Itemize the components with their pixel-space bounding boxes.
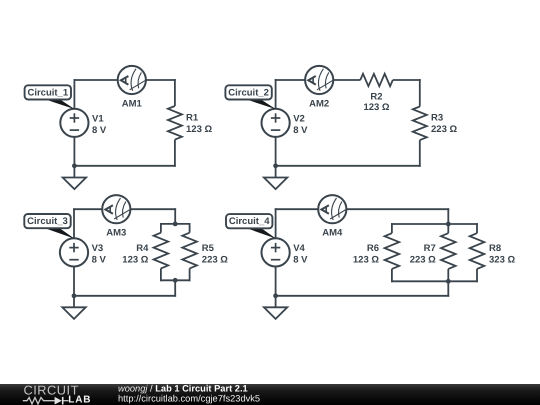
svg-text:8 V: 8 V [92, 125, 107, 136]
wire [73, 166, 75, 178]
wire [393, 79, 421, 81]
ammeter AM4 [318, 195, 346, 223]
wire [73, 137, 75, 166]
svg-text:R8: R8 [489, 243, 501, 254]
ammeter AM3 [102, 195, 130, 223]
wire [174, 140, 176, 167]
wire [160, 223, 191, 225]
svg-text:Circuit_3: Circuit_3 [27, 216, 68, 227]
footer text [118, 383, 260, 403]
resistor R7 [441, 233, 456, 269]
resistor R8 [470, 233, 485, 269]
svg-text:R1: R1 [186, 113, 199, 124]
wire [275, 137, 277, 166]
wire [73, 79, 75, 109]
resistor R4 [154, 233, 169, 269]
svg-text:Circuit_1: Circuit_1 [27, 87, 68, 98]
svg-text:LAB: LAB [68, 394, 91, 405]
node c4-gnd (junction dot) [273, 293, 278, 298]
wire [419, 140, 421, 167]
svg-text:V3: V3 [92, 243, 104, 254]
wire [73, 267, 75, 296]
ammeter AM2 [305, 66, 333, 94]
wire [391, 280, 478, 282]
wire [275, 208, 318, 210]
wire [391, 223, 478, 225]
wire [189, 268, 191, 281]
node c3-top (junction dot) [173, 222, 178, 227]
node c4-bot (junction dot) [446, 279, 451, 284]
wire [391, 269, 393, 282]
voltage source V2 [262, 109, 290, 137]
wire [74, 165, 176, 167]
resistor R2 [360, 74, 393, 86]
node c2-gnd (junction dot) [273, 163, 278, 168]
svg-text:woongj / Lab 1 Circuit Part 2.: woongj / Lab 1 Circuit Part 2.1 [118, 383, 248, 393]
voltage source V4 [262, 238, 290, 266]
resistor R3 [413, 107, 427, 141]
svg-text:AM3: AM3 [106, 228, 126, 239]
wire [447, 281, 449, 296]
wire [447, 223, 449, 233]
wire [347, 208, 450, 210]
ground [63, 178, 86, 190]
flag label Circuit_3 [24, 214, 74, 239]
wire [73, 208, 75, 238]
svg-text:323 Ω: 323 Ω [489, 254, 515, 265]
svg-text:R2: R2 [370, 92, 382, 103]
wire [275, 295, 450, 297]
wire [391, 223, 393, 233]
wire [275, 79, 305, 81]
svg-text:123 Ω: 123 Ω [122, 254, 148, 265]
svg-text:AM2: AM2 [309, 98, 329, 109]
svg-text:123 Ω: 123 Ω [363, 102, 389, 113]
svg-text:V2: V2 [293, 113, 305, 124]
svg-text:123 Ω: 123 Ω [186, 124, 212, 135]
flag label Circuit_1 [25, 85, 75, 109]
wire [160, 223, 162, 233]
svg-text:http://circuitlab.com/cgje7fs2: http://circuitlab.com/cgje7fs23dvk5 [118, 394, 260, 404]
wire [174, 79, 176, 106]
flag label Circuit_4 [226, 214, 276, 239]
node c3-bot (junction dot) [173, 278, 178, 283]
wire [419, 79, 421, 106]
wire [275, 296, 277, 308]
svg-text:AM4: AM4 [322, 228, 343, 239]
svg-text:V4: V4 [293, 243, 305, 254]
svg-text:223 Ω: 223 Ω [202, 254, 228, 265]
svg-text:123 Ω: 123 Ω [353, 254, 379, 265]
voltage source V1 [60, 109, 88, 137]
svg-text:8 V: 8 V [293, 125, 308, 136]
resistor R1 [168, 106, 182, 140]
wire [275, 79, 277, 109]
svg-text:R7: R7 [424, 243, 436, 254]
flag label Circuit_2 [225, 85, 276, 109]
wire [174, 280, 176, 296]
wire [160, 279, 191, 281]
ground [264, 307, 287, 319]
svg-text:AM1: AM1 [122, 98, 143, 109]
wire [476, 269, 478, 282]
node c1-gnd (junction dot) [72, 163, 77, 168]
svg-text:223 Ω: 223 Ω [431, 124, 457, 135]
node c3-gnd (junction dot) [72, 293, 77, 298]
svg-text:223 Ω: 223 Ω [410, 254, 436, 265]
svg-text:R6: R6 [367, 243, 379, 254]
wire [447, 269, 449, 282]
wire [131, 208, 177, 210]
wire [160, 268, 162, 281]
ammeter AM1 [118, 66, 146, 94]
svg-text:R4: R4 [136, 243, 149, 254]
wire [73, 295, 176, 297]
voltage source V3 [60, 238, 88, 266]
wire [275, 165, 421, 167]
wire [73, 208, 102, 210]
wire [333, 79, 360, 81]
svg-text:R5: R5 [202, 243, 215, 254]
ground [62, 307, 85, 319]
CircuitLab logo [23, 383, 91, 405]
wire [275, 166, 277, 178]
resistor R6 [385, 233, 400, 269]
ground [264, 178, 287, 190]
svg-text:8 V: 8 V [92, 255, 107, 266]
wire [146, 79, 176, 81]
wire [189, 223, 191, 233]
wire [275, 267, 277, 296]
svg-text:V1: V1 [92, 113, 104, 124]
wire [275, 208, 277, 238]
svg-text:R3: R3 [431, 113, 443, 124]
svg-text:Circuit_2: Circuit_2 [228, 87, 269, 98]
wire [174, 208, 176, 224]
wire [73, 296, 75, 308]
node c4-top (junction dot) [446, 222, 451, 227]
resistor R5 [182, 233, 197, 269]
wire [74, 79, 118, 81]
svg-text:8 V: 8 V [293, 255, 308, 266]
wire [476, 223, 478, 233]
svg-text:Circuit_4: Circuit_4 [229, 216, 270, 227]
wire [447, 208, 449, 224]
